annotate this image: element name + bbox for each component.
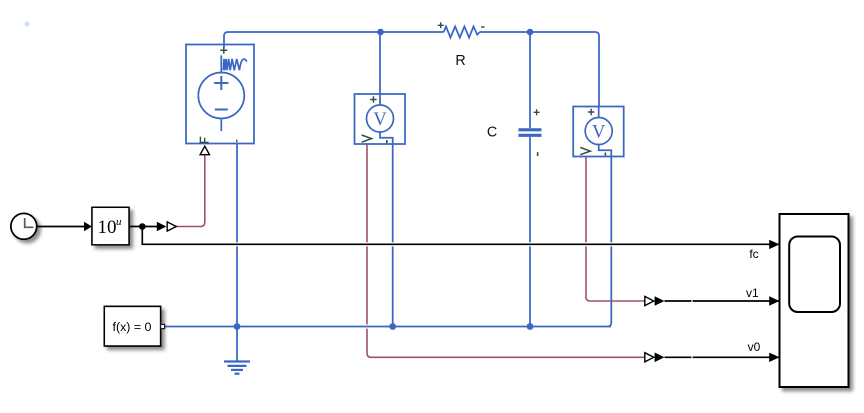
- svg-text:C: C: [487, 125, 497, 141]
- node bus junction VM1: [389, 323, 396, 330]
- wire fc halo: [142, 227, 779, 245]
- wire clock to gain: [37, 226, 85, 228]
- wire bottom bus halo: [165, 324, 608, 328]
- wire C bottom (blue): [529, 137, 531, 327]
- wire VM2 output to v1 converter (maroon): [586, 157, 645, 301]
- label - tick of source: [236, 140, 238, 143]
- wire VM1 minus down (blue): [392, 144, 394, 327]
- wire top rail (blue): [224, 32, 599, 107]
- arrowhead fc into scope: [769, 240, 779, 249]
- wire fc (black): [142, 227, 779, 245]
- label - of C: [537, 152, 539, 156]
- arrowhead v0 into scope: [769, 353, 779, 362]
- wire C top (blue): [529, 32, 531, 128]
- wire VM1 top (blue): [379, 32, 381, 94]
- svg-text:v0: v0: [748, 340, 761, 354]
- label - of VM1: [386, 140, 388, 143]
- port triangle under source: [200, 146, 209, 155]
- wire VM1 output to v0 converter (maroon): [367, 144, 645, 357]
- wire source negative down (blue): [236, 144, 238, 327]
- converter simulink-to-PS (filled + hollow arrow): [157, 222, 167, 232]
- svg-text:fc: fc: [749, 247, 758, 261]
- wire v1 (black): [665, 300, 780, 302]
- converter PS-to-simulink v0 (hollow + filled arrow): [645, 353, 654, 362]
- node top rail junction C: [527, 29, 534, 36]
- svg-text:10: 10: [98, 217, 117, 238]
- clock block: [11, 213, 37, 239]
- wire v0 (black): [665, 356, 780, 358]
- gain block 10^u: [92, 207, 129, 245]
- svg-text:u: u: [116, 216, 122, 228]
- ground: [224, 327, 250, 374]
- node bus junction ground: [234, 323, 241, 330]
- arrowhead v1 into scope: [769, 296, 779, 305]
- port label > of VM1: [362, 135, 372, 142]
- label - of R: [481, 26, 485, 28]
- wire gap marks: [691, 299, 693, 303]
- svg-text:R: R: [455, 53, 465, 69]
- wire gain to converter: [129, 226, 157, 228]
- svg-text:v1: v1: [746, 286, 759, 300]
- converter PS-to-simulink v1 (hollow + filled arrow): [645, 296, 654, 305]
- label - of VM2: [604, 153, 606, 156]
- label + of C: [534, 109, 540, 115]
- label + of VM2: [588, 109, 594, 115]
- controlled voltage source U1: [186, 45, 254, 144]
- port label > of VM2: [580, 148, 590, 155]
- solver block f(x)=0: [104, 306, 164, 346]
- label + of source: [220, 47, 227, 54]
- label + of R: [438, 22, 444, 28]
- wire bottom bus (blue): [165, 326, 612, 328]
- svg-text:V: V: [373, 110, 387, 130]
- voltmeter VM2: [573, 107, 624, 158]
- scope block: [780, 214, 849, 387]
- port label F of source: [200, 137, 209, 143]
- label + of VM1: [370, 96, 376, 102]
- node bus junction C: [527, 323, 534, 330]
- arrowhead into gain: [84, 222, 92, 231]
- voltmeter VM1: [355, 94, 406, 144]
- wire PS input of source from converter (maroon): [176, 156, 205, 227]
- svg-text:f(x) = 0: f(x) = 0: [113, 320, 152, 334]
- wire VM2 minus down (blue): [607, 157, 611, 327]
- svg-text:V: V: [592, 123, 606, 143]
- node top rail junction VM1: [377, 29, 384, 36]
- capacitor C: [519, 130, 542, 136]
- annotation dot: [25, 22, 30, 27]
- resistor R: [444, 27, 480, 38]
- node gain output junction: [139, 223, 146, 230]
